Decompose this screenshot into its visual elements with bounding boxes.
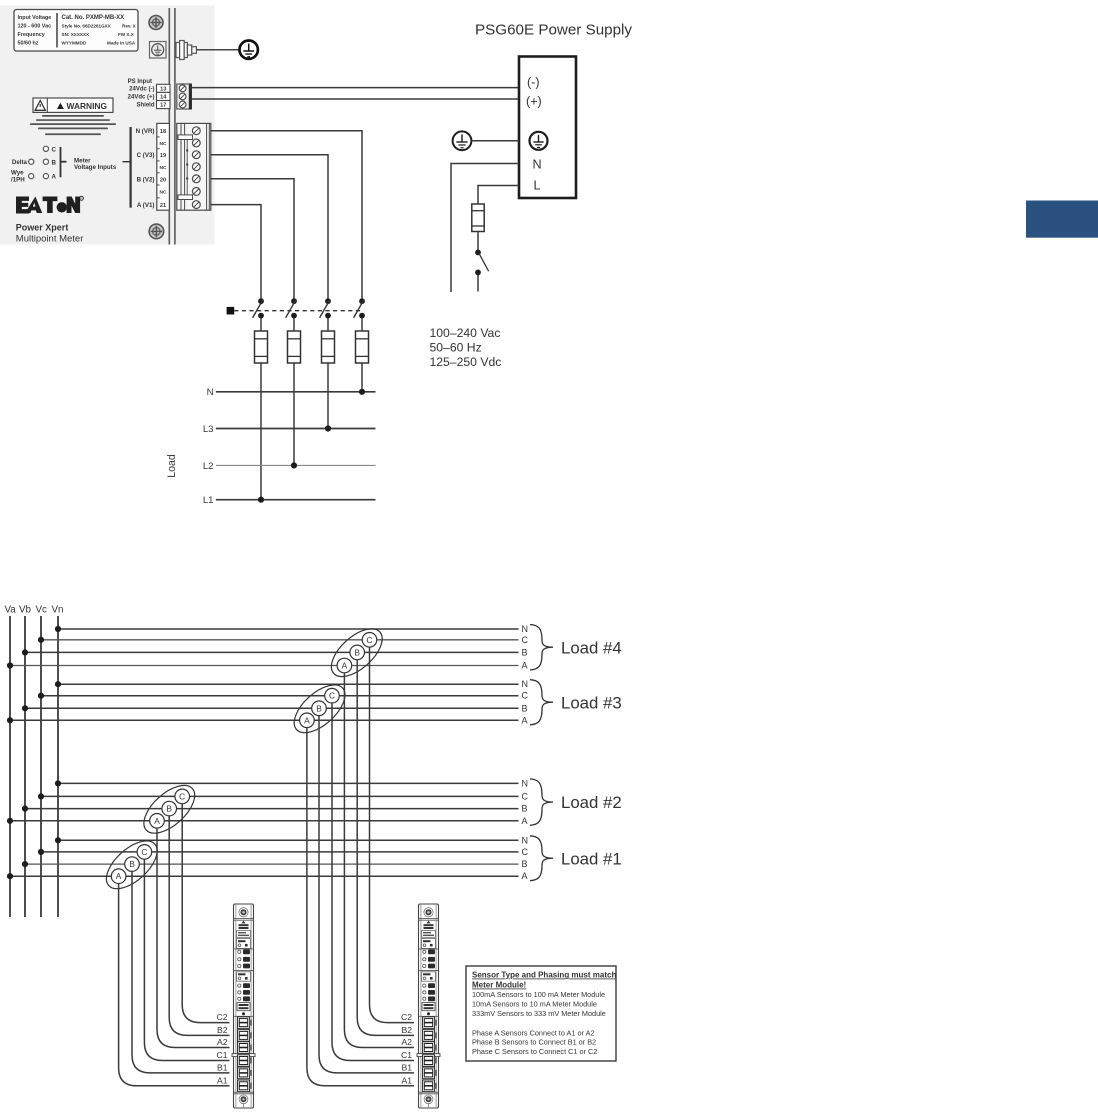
nameplate label box [14,10,138,52]
load1 B wire [25,863,519,865]
svg-text:SN: XXXXXX: SN: XXXXXX [62,32,91,37]
CT oval load2 [136,777,203,842]
svg-text:Power Xpert: Power Xpert [16,223,69,233]
node L1 junction [258,497,264,503]
svg-text:10mA Sensors to 10 mA Meter Mo: 10mA Sensors to 10 mA Meter Module [472,999,597,1008]
svg-text:(-): (-) [527,76,540,90]
svg-text:B: B [522,859,528,869]
svg-text:B2: B2 [217,1025,228,1035]
bus line L3 [216,428,376,430]
PSU box U1 [519,57,576,199]
svg-text:C: C [179,791,185,801]
switch S1 [253,298,264,318]
svg-text:Vc: Vc [36,605,48,616]
svg-text:Load: Load [166,454,178,478]
svg-text:120 - 600 Vac: 120 - 600 Vac [18,24,52,30]
load3 phase labels [522,679,529,725]
nameplate text left column [18,15,52,47]
svg-text:A2: A2 [401,1037,412,1047]
svg-text:N: N [533,158,542,172]
svg-text:Voltage Inputs: Voltage Inputs [74,164,117,171]
CT oval load3 [286,676,353,741]
svg-text:WARNING: WARNING [67,101,107,111]
svg-text:Phase A Sensors Connect to A1: Phase A Sensors Connect to A1 or A2 [472,1029,595,1038]
svg-text:N: N [522,778,529,788]
svg-text:(+): (+) [526,95,542,109]
voltage terminal number column [157,123,170,210]
radio Wye/1PH [11,170,34,184]
svg-text:50–60 Hz: 50–60 Hz [430,341,482,355]
svg-text:Vb: Vb [19,605,32,616]
svg-text:PSG60E Power Supply: PSG60E Power Supply [475,22,632,39]
screw bottom [149,224,164,239]
load2 N wire [58,782,519,784]
svg-text:A: A [522,871,528,881]
load2 A wire [10,820,519,822]
svg-text:Load #3: Load #3 [561,693,622,712]
svg-text:N: N [522,624,529,634]
svg-text:C1: C1 [217,1050,228,1060]
svg-text:A2: A2 [217,1037,228,1047]
svg-text:C: C [366,635,372,645]
svg-text:A (V1): A (V1) [137,202,155,209]
warning box [33,98,113,112]
wire fuse2 to L2 [293,363,295,465]
svg-text:B: B [52,159,57,166]
meter module backdrop [0,6,215,245]
svg-text:100–240 Vac: 100–240 Vac [430,326,501,340]
brace load3 [530,680,553,725]
svg-text:100mA Sensors to 100 mA Meter: 100mA Sensors to 100 mA Meter Module [472,990,605,999]
wire N [451,164,519,293]
brace load1 [530,836,553,881]
CT oval load1 [98,832,165,897]
svg-text:C: C [522,847,529,857]
svg-text:Rev. X: Rev. X [122,24,137,29]
meter module strip left [232,904,255,1108]
wire fuse1 to L1 [260,363,262,500]
svg-text:Frequency: Frequency [18,32,45,38]
label source ratings [430,326,502,369]
svg-text:Load #1: Load #1 [561,849,622,868]
svg-text:N: N [207,387,214,398]
voltage input labels [136,128,155,209]
load1 C wire [41,851,519,853]
svg-text:13: 13 [160,87,166,93]
wire switch2 to fuse2 [293,318,295,331]
load4 phase labels [522,624,529,671]
PSU ground screw [530,132,548,150]
nameplate text right column [62,15,137,46]
PS input terminal number boxes 13 14 17 [157,84,171,108]
wire fuse4 to N [361,363,363,392]
sensor wire right B2 [357,660,414,1036]
svg-text:Va: Va [5,605,17,616]
wire terminal 18 to switch 4 [211,131,362,299]
ground stud on rail [176,41,196,60]
svg-text:C2: C2 [217,1012,228,1022]
svg-text:Input Voltage: Input Voltage [18,15,52,21]
screw top [149,16,163,30]
svg-text:24Vdc (+): 24Vdc (+) [128,95,155,101]
sensor wire right A1 [307,728,414,1086]
CT circles load1 [111,845,151,884]
svg-text:125–250 Vdc: 125–250 Vdc [430,355,502,369]
PS input terminal block [177,84,192,110]
panel rail left [168,8,170,245]
load3 N wire [58,683,519,685]
svg-text:L2: L2 [203,461,214,472]
warning fine print lines [30,115,116,135]
load4 C wire [41,639,519,641]
load3 A wire [10,719,519,721]
blue tab rectangle [1026,201,1098,238]
brace load4 [530,625,553,671]
load4 N wire [58,628,519,630]
svg-text:C: C [522,635,529,645]
svg-text:24Vdc (-): 24Vdc (-) [129,87,154,93]
load4 A wire [10,665,519,667]
svg-text:B1: B1 [401,1062,412,1072]
svg-text:17: 17 [160,103,166,109]
rail Vb [24,616,26,917]
svg-text:B2: B2 [401,1025,412,1035]
svg-text:NC: NC [160,190,167,196]
svg-text:Delta: Delta [12,159,28,166]
wire 24Vdc(-) to PSU [192,87,519,89]
load2 phase labels [522,778,529,825]
svg-text:A: A [304,715,310,725]
CT circles load2 [150,789,190,828]
wire terminal 19 to switch 3 [211,155,328,299]
load2 B wire [25,808,519,810]
radio selector C [43,146,56,153]
wire fuse3 to L3 [327,363,329,429]
svg-text:Vn: Vn [52,605,64,616]
wire earth to PSU [471,140,519,142]
svg-text:Phase B Sensors to Connect B1: Phase B Sensors to Connect B1 or B2 [472,1038,596,1047]
wire switch1 to fuse1 [260,318,262,331]
svg-text:Load #4: Load #4 [561,638,622,657]
Eaton logo [16,196,84,213]
meter module strip right [417,904,440,1108]
junction dots load2 [7,780,61,824]
sensor wire left A1 [119,884,230,1086]
svg-text:B: B [129,859,135,869]
sensor wire left B2 [169,816,229,1036]
wire stud to earth symbol [196,49,239,51]
voltage inputs bracket [130,127,132,208]
svg-text:A: A [522,715,528,725]
panel rail right [174,8,176,245]
svg-text:NC: NC [160,165,167,171]
node L3 junction [325,425,331,431]
sensor wire right A2 [344,673,414,1048]
switch S2 [286,298,297,318]
svg-text:C: C [141,847,147,857]
svg-text:B1: B1 [217,1062,228,1072]
svg-text:PS Input: PS Input [128,79,152,85]
node L2 junction [291,462,297,468]
CT circles load4 [337,633,377,673]
junction dots load3 [7,681,61,723]
svg-text:Sensor Type and Phasing must m: Sensor Type and Phasing must match [472,971,616,980]
switch S4 [354,298,365,318]
svg-text:C2: C2 [401,1012,412,1022]
switch S3 [320,298,331,318]
svg-text:N (VR): N (VR) [136,128,155,135]
svg-text:B: B [522,804,528,814]
wire terminal 20 to switch 2 [211,179,294,299]
load2 C wire [41,795,519,797]
svg-text:18: 18 [160,129,166,135]
svg-text:Cat. No. PXMP-MB-XX: Cat. No. PXMP-MB-XX [62,15,125,21]
fuse F1 [255,331,268,363]
svg-text:A: A [522,816,528,826]
wire switch3 to fuse3 [327,318,329,331]
svg-text:50/60 hz: 50/60 hz [18,41,39,47]
svg-text:C1: C1 [401,1050,412,1060]
label Meter Voltage Inputs [74,157,117,171]
svg-text:N: N [522,835,529,845]
svg-text:L1: L1 [203,495,214,506]
gang handle square [227,307,235,315]
svg-text:N: N [522,679,529,689]
svg-text:B (V2): B (V2) [137,176,155,183]
svg-text:C: C [52,146,57,153]
svg-text:A: A [116,871,122,881]
wire fuse to switch [477,232,479,251]
sensor wire left B1 [132,871,230,1073]
switch S5 (PSU line) [475,250,489,292]
external earth symbol [453,131,472,150]
gang dashed link [234,310,362,312]
svg-text:Load #2: Load #2 [561,793,622,812]
svg-text:B: B [522,703,528,713]
svg-text:B: B [316,703,322,713]
svg-text:A: A [522,661,528,671]
svg-text:L3: L3 [203,424,214,435]
junction dots load1 [7,837,61,879]
voltage terminal block connector [177,123,211,210]
radio selector B [43,159,56,166]
rail Vc [40,616,42,917]
node N junction [359,389,365,395]
wire L [478,186,519,205]
svg-text:C (V3): C (V3) [137,152,155,159]
earth ground symbol [240,41,258,59]
bus line L2 [216,464,376,466]
load3 C wire [41,695,519,697]
wire 24Vdc(+) to PSU [192,98,519,100]
sensor wire left A2 [157,828,230,1047]
svg-text:20: 20 [160,177,166,183]
svg-text:Made in USA: Made in USA [107,41,136,46]
svg-text:B: B [354,647,360,657]
fuse F4 [356,331,369,363]
sensor wire left C2 [182,804,229,1023]
fuse F2 [288,331,301,363]
rail Vn [57,616,59,917]
note box sensor type [466,966,616,1061]
CT oval load4 [323,620,390,685]
svg-text:Phase C Sensors to Connect C1: Phase C Sensors to Connect C1 or C2 [472,1047,597,1056]
sensor wire right B1 [319,716,414,1073]
load1 phase labels [522,835,529,881]
radio Delta [12,159,34,166]
radio selector A [43,174,56,181]
sensor wire right C2 [370,647,415,1023]
sensor labels left module [217,1012,228,1085]
svg-text:C: C [329,691,335,701]
svg-text:21: 21 [160,203,166,209]
svg-text:Shield: Shield [136,103,154,109]
wire switch4 to fuse4 [361,318,363,331]
sensor wire left C1 [144,859,229,1060]
CT circles load3 [300,688,340,727]
rail Va [9,616,11,917]
fuse F3 [322,331,335,363]
load1 N wire [58,839,519,841]
svg-text:FW X.X: FW X.X [118,32,135,37]
svg-text:WYYMMDD: WYYMMDD [62,41,87,46]
fuse F5 (PSU line) [472,204,484,232]
junction dots load4 [7,626,61,669]
svg-text:NC: NC [160,141,167,147]
wire label to input bracket [123,161,131,163]
load1 A wire [10,875,519,877]
wire terminal 21 to switch 1 [211,205,261,299]
svg-text:A: A [52,174,57,181]
svg-text:B: B [166,804,172,814]
load4 B wire [25,651,519,653]
svg-text:B: B [522,647,528,657]
brace load2 [530,779,553,825]
bus line N [216,391,376,393]
svg-text:C: C [522,691,529,701]
sensor labels right module [401,1012,412,1085]
radio group bracket [61,147,67,177]
svg-text:A: A [154,816,160,826]
svg-text:C: C [522,791,529,801]
svg-text:14: 14 [160,95,167,101]
sensor wire right C1 [332,703,414,1061]
load3 B wire [25,707,519,709]
svg-text:Meter Module!: Meter Module! [472,981,526,990]
svg-text:A1: A1 [401,1075,412,1085]
PS Input labels [128,79,155,109]
ground screw in square [150,42,167,59]
svg-text:A1: A1 [217,1075,228,1085]
bus line L1 [216,499,376,501]
svg-text:/1PH: /1PH [11,176,25,183]
svg-text:333mV Sensors to 333 mV Meter: 333mV Sensors to 333 mV Meter Module [472,1009,606,1018]
svg-text:Style No. 66D2261GXX: Style No. 66D2261GXX [62,24,112,29]
svg-text:19: 19 [160,153,166,159]
svg-text:Multipoint Meter: Multipoint Meter [16,234,84,245]
svg-text:A: A [342,661,348,671]
svg-text:L: L [534,179,541,193]
